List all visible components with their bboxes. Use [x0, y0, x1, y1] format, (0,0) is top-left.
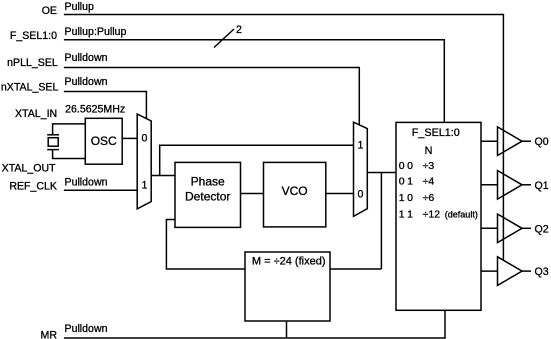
- buffer U9 (Q2): [498, 214, 523, 243]
- wire XTAL_OUT lead to OSC: [53, 150, 86, 159]
- phase detector U4 box: [175, 162, 241, 227]
- svg-text:Pullup: Pullup: [65, 1, 95, 13]
- svg-text:Q3: Q3: [535, 266, 549, 278]
- wire divider M output to Phase Detector feedback input: [166, 220, 245, 270]
- wire OE net: horizontal then down right side: [64, 15, 504, 261]
- svg-text:1 1: 1 1: [399, 209, 413, 221]
- svg-text:1: 1: [357, 140, 363, 152]
- svg-text:26.5625MHz: 26.5625MHz: [65, 104, 125, 116]
- wire Phase Detector output to VCO: [241, 193, 264, 195]
- svg-text:Q2: Q2: [535, 223, 549, 235]
- svg-text:F_SEL1:0: F_SEL1:0: [412, 127, 460, 139]
- wire nXTAL_SEL: horizontal then down to mux U2 select: [64, 92, 146, 119]
- svg-text:(default): (default): [445, 210, 478, 220]
- wire divider output stub Q1: [481, 184, 498, 186]
- svg-text:Detector: Detector: [185, 190, 230, 204]
- svg-text:÷4: ÷4: [423, 176, 435, 188]
- svg-text:Pulldown: Pulldown: [65, 52, 108, 64]
- svg-text:0: 0: [142, 133, 148, 145]
- wire divider M bottom to MR net: [286, 321, 288, 338]
- svg-text:Pulldown: Pulldown: [65, 176, 108, 188]
- svg-text:OSC: OSC: [91, 134, 117, 148]
- mux U3 (PLL bypass select): [354, 122, 368, 216]
- bus-width slash on F_SEL1:0: [214, 29, 234, 48]
- svg-text:2: 2: [236, 24, 242, 36]
- svg-text:÷12: ÷12: [423, 209, 441, 221]
- wire nPLL_SEL: horizontal then down to mux U3 select: [64, 68, 359, 125]
- wire mux U2 output to Phase Detector: [151, 175, 175, 177]
- svg-text:0 1: 0 1: [399, 176, 413, 188]
- svg-text:F_SEL1:0: F_SEL1:0: [10, 30, 57, 42]
- output divider U6 box F_SEL1:0: [396, 122, 481, 310]
- buffer U10 (Q3): [498, 257, 523, 286]
- svg-text:Pullup:Pullup: Pullup:Pullup: [65, 26, 127, 38]
- wire Q2 output stub: [522, 227, 531, 229]
- mux U2 (reference select): [137, 114, 151, 209]
- wire divider output stub Q0: [481, 140, 498, 142]
- wire Q0 output stub: [522, 140, 531, 142]
- svg-text:0 0: 0 0: [399, 160, 413, 172]
- divider M box: [245, 252, 330, 321]
- svg-text:÷3: ÷3: [423, 160, 435, 172]
- wire Q3 output stub: [522, 270, 531, 272]
- svg-text:Pulldown: Pulldown: [65, 76, 108, 88]
- svg-text:XTAL_OUT: XTAL_OUT: [2, 162, 56, 174]
- svg-text:M = ÷24 (fixed): M = ÷24 (fixed): [252, 256, 326, 268]
- svg-text:nPLL_SEL: nPLL_SEL: [7, 57, 58, 69]
- wire mux U3 output to output divider: [367, 172, 396, 174]
- wire divider M right side: [330, 268, 381, 270]
- buffer U7 (Q0): [498, 127, 523, 156]
- svg-text:0: 0: [357, 189, 363, 201]
- wire XTAL_IN lead to OSC: [53, 124, 86, 135]
- svg-text:REF_CLK: REF_CLK: [9, 181, 57, 193]
- crystal X1 body: [48, 138, 58, 147]
- wire MR: horizontal then up to divider bottom: [64, 310, 445, 338]
- wire REF_CLK to mux U2 input 1: [64, 189, 137, 191]
- wire OSC output to mux U2 input 0: [122, 137, 137, 139]
- wire feedback tap down to divider M: [380, 173, 382, 270]
- crystal X1 top plate: [47, 134, 59, 136]
- svg-text:OE: OE: [42, 5, 57, 17]
- svg-text:VCO: VCO: [282, 184, 308, 198]
- wire divider output stub Q3: [481, 270, 498, 272]
- wire branch to mux U3 input 1: [160, 145, 354, 175]
- crystal X1 bottom plate: [47, 149, 59, 151]
- vco U5 box: [264, 162, 326, 227]
- wire Q1 output stub: [522, 184, 531, 186]
- oscillator OSC box: [85, 118, 122, 164]
- svg-text:Q0: Q0: [535, 136, 549, 148]
- wire VCO output to mux U3 input 0: [326, 193, 354, 195]
- svg-text:N: N: [425, 145, 433, 157]
- svg-text:Phase: Phase: [191, 175, 225, 189]
- svg-text:1: 1: [142, 180, 148, 192]
- buffer U8 (Q1): [498, 171, 523, 200]
- svg-text:1 0: 1 0: [399, 192, 413, 204]
- wire F_SEL1:0 bus: horizontal then down to divider top: [64, 40, 444, 123]
- svg-text:÷6: ÷6: [423, 192, 435, 204]
- svg-text:XTAL_IN: XTAL_IN: [15, 108, 57, 120]
- svg-text:Q1: Q1: [535, 180, 549, 192]
- wire divider output stub Q2: [481, 227, 498, 229]
- svg-text:MR: MR: [41, 330, 58, 339]
- svg-text:Pulldown: Pulldown: [65, 323, 108, 335]
- svg-text:nXTAL_SEL: nXTAL_SEL: [1, 81, 59, 93]
